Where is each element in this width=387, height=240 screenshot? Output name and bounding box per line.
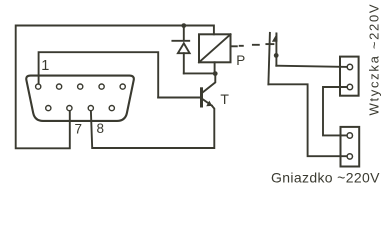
- transistor T (NPN): [202, 74, 216, 107]
- svg-text:P: P: [236, 53, 245, 68]
- svg-text:1: 1: [41, 58, 49, 74]
- svg-text:Wtyczka ~220V: Wtyczka ~220V: [367, 3, 382, 116]
- svg-text:T: T: [220, 91, 229, 107]
- pin 3: [78, 84, 83, 89]
- wire (relay bottom lead): [214, 62, 216, 73]
- pin 8: [88, 106, 93, 111]
- pin 7: [67, 106, 72, 111]
- wire (lever bottom to socket bottom terminal): [268, 84, 346, 156]
- wire (relay contact stub): [231, 45, 237, 47]
- wire (base wire from node to transistor): [158, 97, 200, 99]
- pin 2: [57, 84, 62, 89]
- connector plug J1: [340, 57, 359, 96]
- wire (diode anode to relay-bottom node): [184, 72, 215, 74]
- pin 1: [36, 84, 41, 89]
- wire pin7 loop (pin7 down, left, up along left edge, top rail to relay): [16, 26, 214, 149]
- terminal 1: [347, 64, 352, 69]
- diode D (flyback diode, cathode up): [172, 26, 189, 74]
- pin 9: [109, 106, 114, 111]
- mechanical link (dashed): [240, 45, 259, 46]
- relay contact S1 (lever with actuator tick): [266, 33, 277, 85]
- svg-text:Gniazdko ~220V: Gniazdko ~220V: [271, 170, 380, 186]
- connector socket J2: [341, 127, 360, 167]
- wire pin8 (emitter down, left to pin8): [91, 106, 214, 148]
- wire (pole to plug top terminal): [276, 66, 347, 67]
- node A (junction of top rail and diode): [181, 23, 186, 28]
- pin 5: [120, 84, 125, 89]
- wire (plug bottom terminal to socket top terminal): [323, 87, 347, 135]
- node B (collector junction with diode): [213, 71, 218, 76]
- node C (contact pole dot): [274, 53, 279, 58]
- svg-text:8: 8: [97, 121, 105, 136]
- terminal 2: [347, 84, 352, 89]
- relay coil P: [199, 34, 231, 62]
- terminal 2: [347, 154, 352, 159]
- wire pin1 (pin1 up, across, down to base): [39, 52, 159, 97]
- connector DB9 X1: [26, 76, 134, 121]
- pin 4: [99, 84, 104, 89]
- pin 6: [46, 106, 51, 111]
- terminal 1: [347, 133, 352, 138]
- svg-text:7: 7: [75, 122, 83, 137]
